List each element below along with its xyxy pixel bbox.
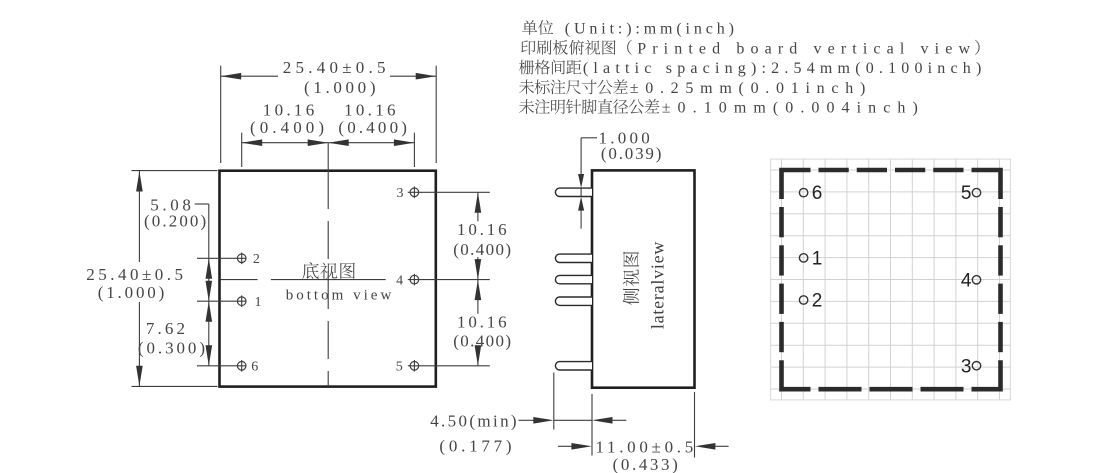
side view body (592, 170, 695, 387)
svg-text:(0.400): (0.400) (453, 332, 511, 351)
svg-text:1: 1 (812, 249, 823, 270)
svg-text:10.16: 10.16 (457, 313, 507, 332)
side view pins (555, 188, 592, 196)
svg-text:7.62: 7.62 (146, 319, 185, 338)
svg-text:25.40±0.5: 25.40±0.5 (283, 58, 386, 77)
title bottom view (302, 262, 355, 279)
vertical centerline (327, 171, 329, 387)
dim 5.08 / 7.62 (195, 203, 209, 205)
svg-text:(0.400): (0.400) (250, 118, 324, 137)
header notes (522, 20, 553, 35)
board pin 3 (972, 362, 980, 370)
svg-text:(0.400): (0.400) (453, 240, 511, 259)
title side view (623, 252, 639, 305)
board pin 2 (799, 296, 807, 304)
svg-text:±0.25mm(0.01inch): ±0.25mm(0.01inch) (630, 80, 866, 97)
pin 3 line (408, 191, 490, 193)
dims 10.16 top (241, 133, 243, 167)
svg-text:Printed board vertical view: Printed board vertical view (637, 41, 970, 58)
svg-text:6: 6 (251, 360, 258, 375)
svg-text:11.00±0.5: 11.00±0.5 (596, 437, 694, 456)
svg-text:(0.433): (0.433) (613, 455, 678, 473)
svg-text:lateralview: lateralview (647, 242, 667, 330)
vertical centerline ext (327, 143, 329, 171)
board pin 6 (799, 188, 807, 196)
pin 5 line (408, 365, 490, 367)
svg-text:10.16: 10.16 (263, 100, 314, 119)
svg-text:1: 1 (255, 295, 262, 310)
svg-text:(0.039): (0.039) (601, 144, 662, 163)
bottom view outline (220, 171, 436, 387)
svg-text:(1.000): (1.000) (304, 78, 376, 97)
svg-text:5: 5 (396, 360, 403, 375)
svg-text:(Unit:):mm(inch): (Unit:):mm(inch) (565, 21, 734, 38)
horizontal centerline (221, 279, 258, 281)
svg-text:±0.10mm(0.004inch): ±0.10mm(0.004inch) (662, 100, 918, 117)
svg-text:10.16: 10.16 (344, 100, 395, 119)
board grid (771, 159, 1011, 400)
svg-text:6: 6 (812, 183, 823, 204)
svg-text:5: 5 (961, 183, 972, 204)
svg-text:3: 3 (397, 186, 404, 201)
svg-text:25.40±0.5: 25.40±0.5 (86, 265, 183, 284)
dim 25.40 top (220, 66, 222, 163)
svg-text:2: 2 (812, 291, 823, 312)
pin 4 line (408, 279, 490, 281)
svg-text:(1.000): (1.000) (98, 283, 165, 302)
pin 1 line (197, 300, 247, 302)
svg-text:(lattic spacing):2.54mm(0.100i: (lattic spacing):2.54mm(0.100inch) (583, 60, 981, 77)
svg-text:(0.177): (0.177) (439, 437, 511, 456)
svg-text:10.16: 10.16 (457, 220, 507, 239)
board dashed outline (782, 170, 811, 199)
dims 10.16 right (477, 192, 479, 221)
dim 25.40 left (132, 170, 218, 172)
svg-text:bottom view: bottom view (286, 287, 392, 303)
svg-text:4: 4 (961, 270, 972, 291)
svg-text:3: 3 (961, 356, 972, 377)
svg-text:(0.400): (0.400) (338, 118, 407, 137)
board pin 4 (972, 276, 980, 284)
board pin 5 (972, 188, 980, 196)
svg-text:4.50(min): 4.50(min) (430, 411, 516, 430)
pin 6 line (197, 365, 247, 367)
svg-text:4: 4 (396, 274, 403, 289)
dim 1.000 (580, 138, 582, 175)
dim 4.50 min (553, 373, 555, 430)
dim 11.00 (558, 445, 572, 447)
svg-text:(0.200): (0.200) (144, 211, 206, 230)
pin 2 line (197, 257, 247, 259)
svg-text:2: 2 (253, 252, 260, 267)
svg-text:(0.300): (0.300) (138, 338, 205, 357)
board pin 1 (799, 254, 807, 262)
